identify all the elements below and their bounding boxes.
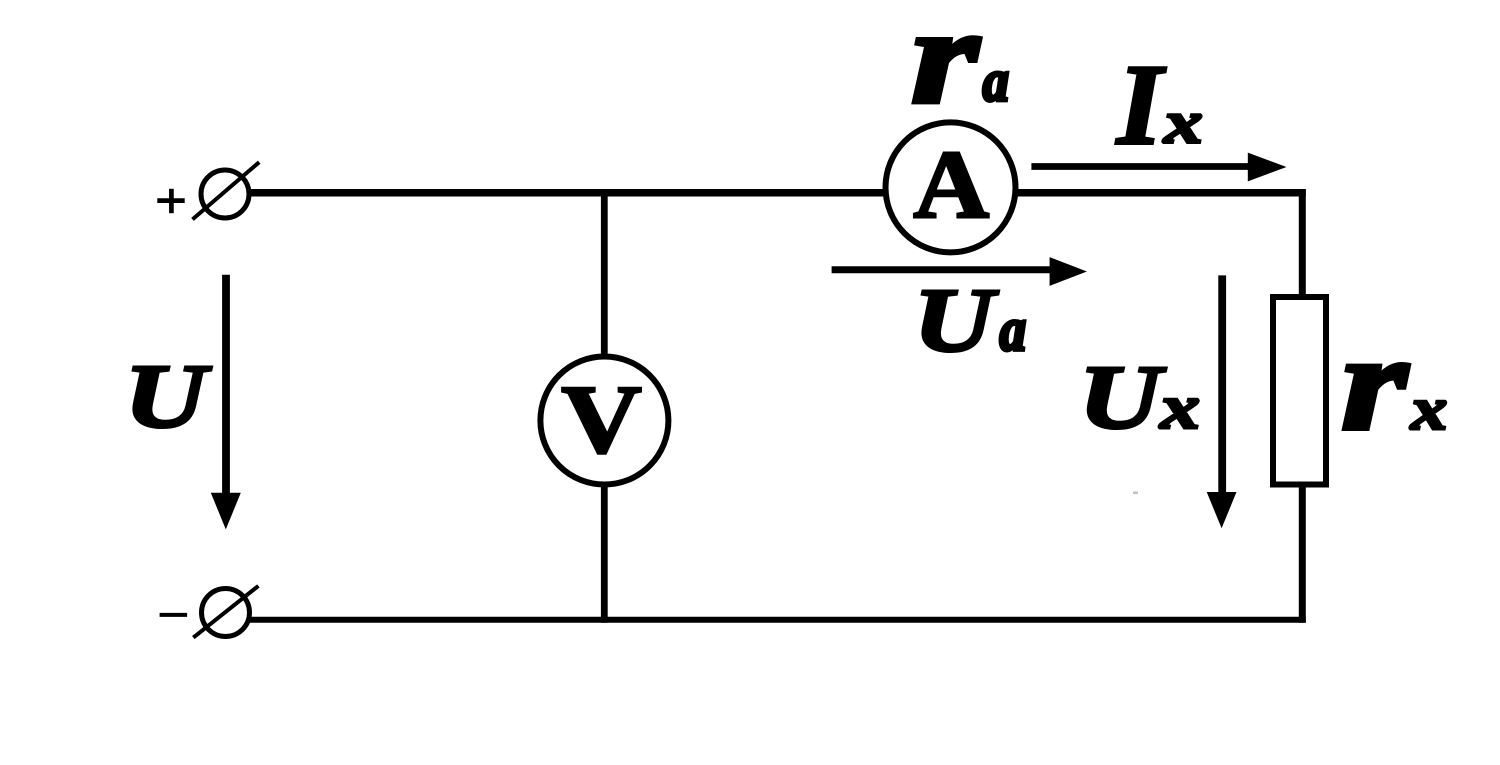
svg-text:a: a: [983, 48, 1009, 114]
svg-text:A: A: [913, 130, 989, 239]
svg-text:U: U: [124, 346, 211, 447]
svg-text:U: U: [914, 270, 999, 371]
svg-text:r: r: [911, 0, 980, 132]
svg-text:r: r: [1341, 308, 1409, 459]
svg-text:I: I: [1115, 42, 1166, 169]
svg-text:x: x: [1410, 376, 1447, 442]
svg-text:V: V: [561, 364, 642, 473]
svg-text:x: x: [1159, 374, 1200, 442]
svg-text:a: a: [1000, 296, 1026, 363]
svg-text:U: U: [1079, 347, 1166, 448]
svg-text:x: x: [1163, 90, 1203, 156]
